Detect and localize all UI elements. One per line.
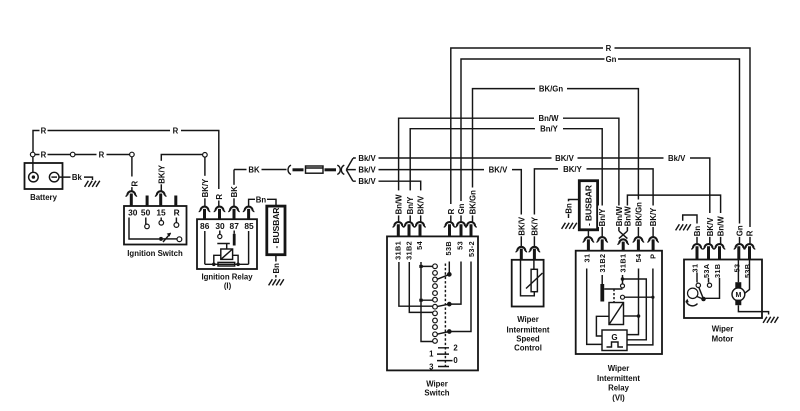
svg-text:31: 31 — [582, 254, 591, 263]
svg-text:Control: Control — [514, 343, 542, 352]
svg-text:R: R — [174, 208, 180, 218]
svg-text:50: 50 — [141, 208, 151, 218]
svg-text:BK/V: BK/V — [417, 195, 426, 214]
svg-text:Wiper: Wiper — [712, 325, 734, 334]
svg-text:BK/V: BK/V — [706, 217, 715, 236]
svg-text:Intermittent: Intermittent — [507, 326, 550, 335]
svg-text:M: M — [735, 292, 741, 299]
svg-text:(VI): (VI) — [612, 394, 625, 403]
svg-text:Intermittent: Intermittent — [597, 374, 640, 383]
svg-text:BK/Y: BK/Y — [201, 178, 210, 197]
svg-text:85: 85 — [244, 221, 254, 231]
svg-text:Ignition Switch: Ignition Switch — [127, 249, 183, 258]
svg-text:53B: 53B — [444, 241, 453, 255]
svg-text:Gn: Gn — [457, 203, 466, 214]
svg-text:Bn/W: Bn/W — [395, 194, 404, 215]
svg-text:BK: BK — [248, 165, 260, 174]
svg-text:Bk: Bk — [72, 173, 83, 182]
svg-text:Bn/W: Bn/W — [539, 114, 560, 123]
svg-text:Gn: Gn — [736, 225, 745, 236]
svg-text:Battery: Battery — [30, 193, 58, 202]
svg-text:31B: 31B — [713, 264, 722, 278]
svg-text:R: R — [99, 150, 105, 159]
svg-text:BK/V: BK/V — [517, 216, 526, 235]
svg-text:31B2: 31B2 — [598, 254, 607, 273]
svg-text:R: R — [41, 126, 47, 135]
svg-text:P: P — [649, 254, 658, 259]
svg-text:BK/Y: BK/Y — [157, 164, 166, 183]
svg-text:BK/V: BK/V — [489, 166, 508, 175]
svg-text:54: 54 — [634, 253, 643, 262]
svg-text:R: R — [215, 194, 224, 200]
svg-text:30: 30 — [215, 221, 225, 231]
svg-text:Bn: Bn — [693, 226, 702, 237]
svg-text:Bn: Bn — [256, 196, 267, 205]
svg-text:BK/Y: BK/Y — [649, 207, 658, 226]
svg-text:BK/V: BK/V — [555, 154, 574, 163]
svg-text:- BUSBAR: - BUSBAR — [583, 184, 593, 226]
svg-text:86: 86 — [200, 221, 210, 231]
svg-text:31B2: 31B2 — [405, 241, 414, 260]
svg-text:Bn/W: Bn/W — [623, 206, 632, 227]
svg-text:R: R — [130, 181, 139, 187]
svg-text:R: R — [41, 150, 47, 159]
svg-text:Wiper: Wiper — [608, 364, 630, 373]
svg-text:BK/Y: BK/Y — [563, 165, 582, 174]
svg-text:Wiper: Wiper — [426, 380, 448, 389]
svg-text:53: 53 — [733, 264, 742, 273]
svg-text:Bn/W: Bn/W — [717, 216, 726, 237]
svg-text:30: 30 — [128, 208, 138, 218]
svg-text:31: 31 — [690, 264, 699, 273]
svg-text:Bn/Y: Bn/Y — [598, 208, 607, 227]
svg-text:Bn: Bn — [565, 203, 574, 214]
svg-text:Bn: Bn — [272, 263, 281, 274]
svg-text:53: 53 — [456, 241, 465, 250]
svg-text:0: 0 — [453, 356, 458, 365]
svg-text:Switch: Switch — [424, 389, 449, 398]
svg-text:(I): (I) — [224, 281, 232, 290]
svg-text:1: 1 — [429, 350, 434, 359]
svg-text:Speed: Speed — [516, 334, 540, 343]
svg-text:BK/Gn: BK/Gn — [539, 85, 563, 94]
svg-text:54: 54 — [415, 240, 424, 249]
svg-text:Bk/V: Bk/V — [358, 166, 376, 175]
svg-text:53A: 53A — [702, 263, 711, 278]
svg-text:3: 3 — [429, 362, 434, 371]
svg-text:- BUSBAR: - BUSBAR — [271, 207, 281, 249]
svg-text:31B1: 31B1 — [618, 254, 627, 273]
svg-text:2: 2 — [453, 344, 458, 353]
svg-text:87: 87 — [230, 221, 240, 231]
svg-text:Bk/V: Bk/V — [358, 177, 376, 186]
svg-text:R: R — [746, 230, 755, 236]
svg-text:BK/Gn: BK/Gn — [634, 202, 643, 226]
svg-text:R: R — [447, 208, 456, 214]
svg-text:R: R — [173, 126, 179, 135]
svg-text:53-2: 53-2 — [467, 241, 476, 257]
svg-text:Wiper: Wiper — [517, 315, 539, 324]
svg-text:Bn/Y: Bn/Y — [540, 125, 559, 134]
svg-text:BK/Gn: BK/Gn — [469, 190, 478, 214]
svg-text:Motor: Motor — [712, 335, 734, 344]
svg-text:Relay: Relay — [608, 384, 629, 393]
svg-text:31B1: 31B1 — [394, 241, 403, 260]
svg-text:Bk/V: Bk/V — [358, 154, 376, 163]
svg-text:Bk/V: Bk/V — [668, 154, 686, 163]
svg-text:R: R — [606, 44, 612, 53]
svg-text:BK/Y: BK/Y — [530, 216, 539, 235]
svg-text:BK: BK — [230, 186, 239, 198]
svg-text:15: 15 — [156, 208, 166, 218]
svg-text:Bn/Y: Bn/Y — [406, 196, 415, 215]
svg-text:Ignition Relay: Ignition Relay — [201, 272, 253, 281]
svg-text:53B: 53B — [743, 264, 752, 278]
svg-text:Gn: Gn — [606, 55, 617, 64]
svg-text:G: G — [611, 333, 617, 342]
